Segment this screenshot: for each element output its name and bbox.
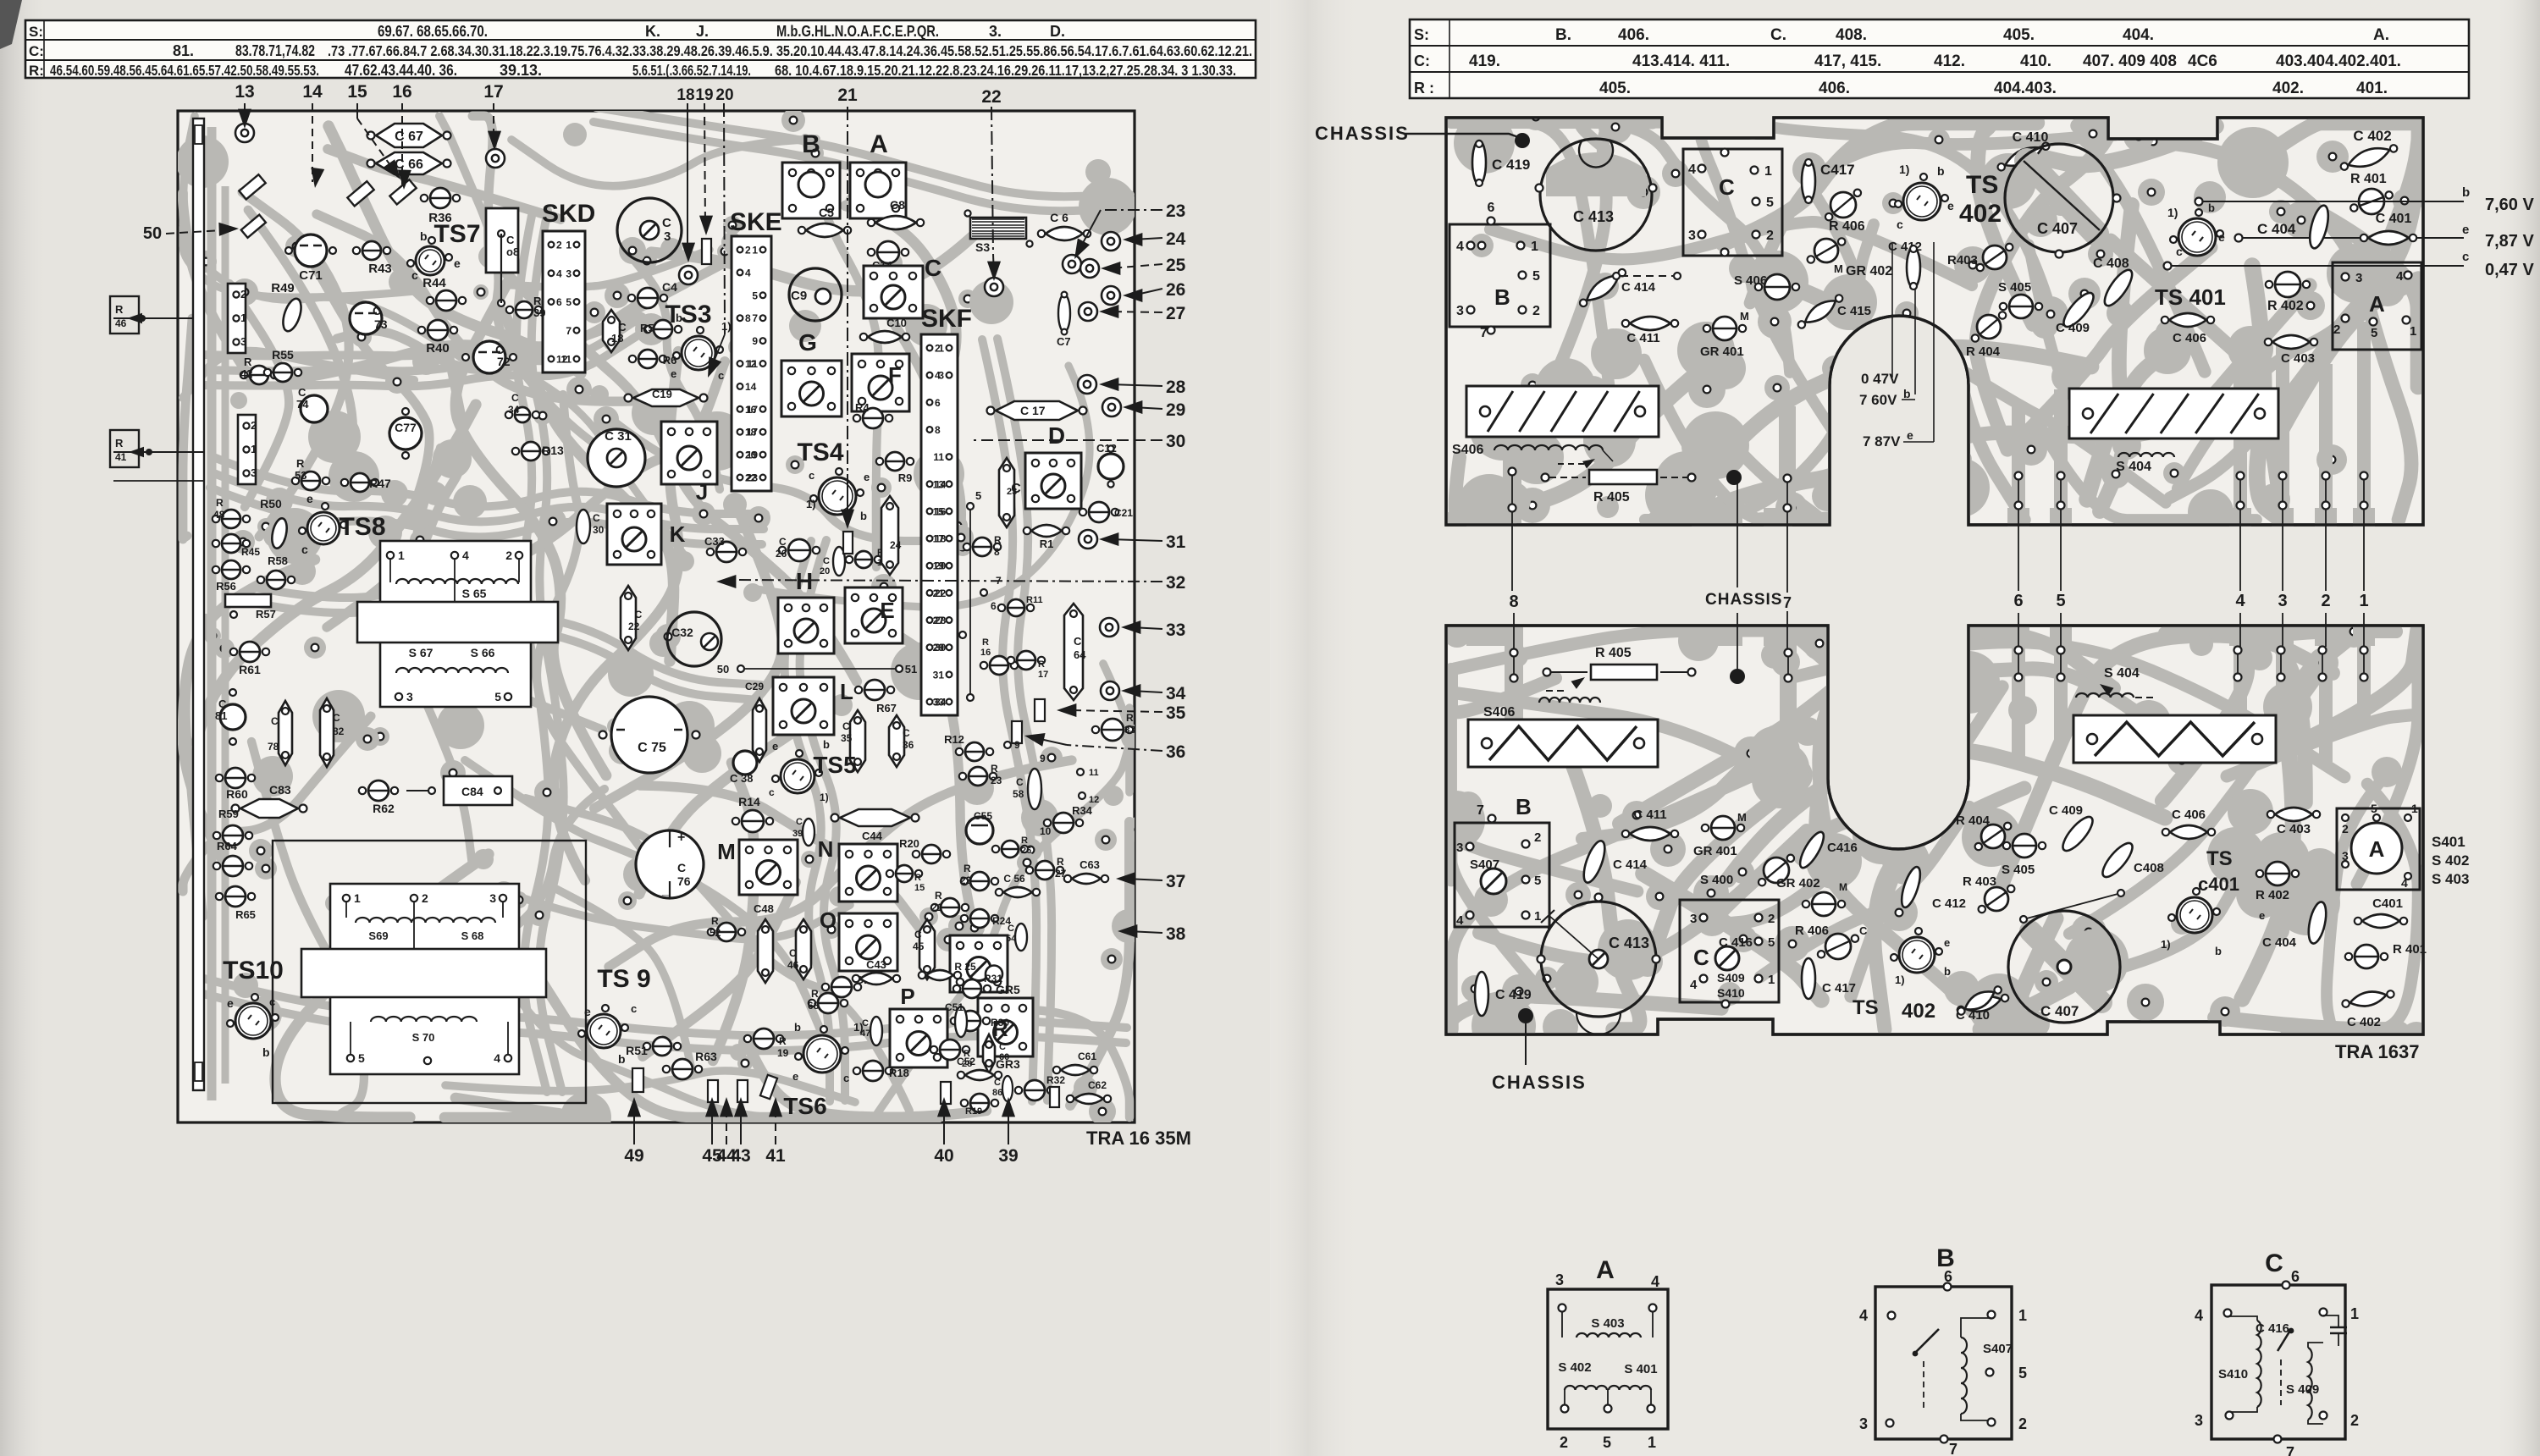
svg-text:A: A [2369, 836, 2385, 862]
svg-text:C:: C: [1414, 52, 1430, 69]
capacitor C407L [2030, 931, 2101, 1002]
resistor R64 [223, 856, 243, 876]
svg-text:2: 2 [251, 419, 257, 432]
svg-text:5: 5 [1534, 874, 1541, 888]
resistor R8 [973, 538, 991, 556]
capacitor C22 [621, 586, 636, 650]
svg-text:R 401: R 401 [2393, 942, 2427, 957]
resistor R29 [970, 1094, 989, 1112]
svg-text:18: 18 [611, 332, 623, 345]
capacitor C46 [796, 919, 811, 979]
wire [1956, 350, 2024, 520]
svg-text:b: b [676, 312, 682, 324]
svg-text:C.: C. [1770, 26, 1786, 44]
svg-text:e: e [2218, 230, 2225, 244]
svg-text:C44: C44 [862, 830, 883, 842]
svg-text:C7: C7 [1057, 335, 1071, 348]
svg-text:N: N [818, 836, 834, 862]
wire [800, 540, 845, 1100]
svg-text:S401: S401 [2432, 834, 2465, 850]
lower board pad pair 2743 [2319, 647, 2327, 654]
svg-text:R5: R5 [640, 322, 654, 334]
svg-text:c: c [2176, 245, 2183, 258]
svg-text:.73 .77.67.66.84.7 2.68.34.30.: .73 .77.67.66.84.7 2.68.34.30.31.18.22.3… [328, 42, 1252, 59]
capacitor C78 [279, 701, 292, 765]
wire [1750, 135, 2116, 303]
wire [500, 250, 710, 288]
switch symbol [1915, 1329, 1939, 1353]
svg-text:S407: S407 [1983, 1342, 2013, 1356]
capacitor C47 [870, 1017, 882, 1045]
svg-text:b: b [420, 229, 428, 243]
svg-text:22: 22 [628, 620, 640, 632]
capacitor C14 [877, 241, 899, 263]
svg-text:C 406: C 406 [2173, 331, 2206, 345]
resistor R406L [1825, 934, 1851, 959]
svg-text:81: 81 [215, 709, 227, 722]
svg-text:R67: R67 [876, 702, 897, 714]
coil S3 [970, 218, 1026, 239]
IF box N [839, 844, 897, 902]
svg-text:2: 2 [1766, 229, 1774, 243]
capacitor C6 [1038, 227, 1091, 240]
svg-text:C 409: C 409 [2049, 803, 2083, 818]
pads 11 12 [1077, 769, 1084, 775]
svg-text:R 406: R 406 [1795, 924, 1829, 938]
svg-text:1: 1 [1764, 164, 1772, 179]
svg-text:31: 31 [1166, 532, 1186, 552]
resistor R404 [1977, 315, 2001, 339]
capacitor C402 [2338, 141, 2399, 175]
svg-text:B: B [1516, 794, 1532, 819]
svg-text:b: b [2215, 945, 2222, 957]
wire [551, 886, 691, 1067]
capacitor C55 [966, 817, 993, 844]
resistor R403 [1983, 245, 2007, 269]
capacitor C60 [983, 1034, 995, 1073]
svg-text:22: 22 [960, 874, 972, 886]
svg-text:2: 2 [2350, 1412, 2359, 1429]
resistor R45 [222, 534, 240, 553]
svg-text:3: 3 [1859, 1415, 1868, 1432]
svg-text:O: O [820, 907, 837, 933]
svg-text:R: R [115, 303, 124, 316]
svg-text:c: c [269, 995, 275, 1008]
wire [1571, 759, 1640, 1029]
IF box K [607, 504, 661, 565]
svg-text:1: 1 [752, 245, 758, 256]
wire [1643, 874, 1821, 1000]
svg-text:30: 30 [593, 524, 605, 536]
transistor TS4 [819, 477, 856, 515]
wire [876, 744, 1129, 1115]
capacitor C72 [473, 341, 505, 373]
svg-text:5: 5 [975, 489, 981, 502]
capacitor C77 [389, 417, 422, 449]
svg-text:69.67. 68.65.66.70.: 69.67. 68.65.66.70. [378, 23, 488, 40]
svg-text:b: b [1937, 164, 1945, 178]
svg-text:J: J [696, 479, 708, 505]
svg-text:TS10: TS10 [223, 957, 284, 984]
IF box F [852, 354, 909, 411]
wire [1655, 781, 1799, 947]
wire [1552, 123, 1653, 383]
svg-text:C21: C21 [1114, 507, 1133, 519]
svg-text:e: e [2462, 223, 2469, 237]
wire [532, 211, 564, 1092]
svg-text:C 38: C 38 [730, 772, 753, 785]
svg-text:C 410: C 410 [2013, 130, 2049, 145]
svg-text:TS: TS [1853, 996, 1879, 1019]
svg-text:4: 4 [1456, 913, 1464, 928]
capacitor C43 [853, 973, 900, 984]
outline restroke [1446, 118, 2423, 525]
svg-text:R57: R57 [256, 608, 276, 620]
svg-text:GR 401: GR 401 [1693, 844, 1737, 858]
pad 5 col [967, 503, 974, 510]
svg-text:19: 19 [747, 449, 759, 461]
resistor R60 [225, 768, 246, 788]
voltage line c [2167, 265, 2464, 267]
wire [1705, 773, 1945, 926]
PCB board TRA 1637 upper outline [1446, 118, 2423, 525]
svg-text:C 75: C 75 [638, 741, 666, 755]
bottom pad pairs right [2015, 472, 2023, 480]
svg-text:402.: 402. [2272, 80, 2304, 97]
wire [640, 786, 926, 937]
svg-text:C: C [999, 1042, 1006, 1052]
svg-text:S406: S406 [1483, 705, 1515, 720]
svg-text:402: 402 [1959, 200, 2002, 228]
IF box E [845, 587, 903, 643]
svg-text:C83: C83 [269, 783, 291, 797]
wire [275, 854, 489, 1117]
wire [204, 332, 643, 386]
left margin connector R46 [110, 296, 139, 334]
svg-text:R56: R56 [216, 580, 236, 593]
wire [1973, 669, 2177, 745]
svg-text:R 404: R 404 [1956, 813, 1991, 828]
capacitor C64 [1064, 604, 1083, 700]
wire [1875, 788, 2024, 1029]
wire [491, 259, 857, 681]
svg-text:e: e [792, 1070, 798, 1083]
svg-text:C: C [511, 392, 519, 404]
svg-text:C: C [333, 712, 340, 724]
connector lugs bottom [632, 1068, 643, 1092]
resistor R12 [965, 742, 984, 761]
svg-text:1: 1 [1768, 973, 1775, 987]
wire [846, 206, 956, 405]
svg-text:1: 1 [2411, 802, 2418, 815]
svg-text:1: 1 [2018, 1307, 2027, 1324]
svg-text:F: F [888, 362, 902, 388]
capacitor C33 [716, 542, 737, 562]
svg-text:47.62.43.44.40. 36.: 47.62.43.44.40. 36. [345, 62, 457, 79]
wire [210, 488, 762, 544]
capacitor C45 [919, 919, 935, 979]
resistor R36 [430, 188, 450, 208]
svg-text:2: 2 [556, 240, 562, 251]
svg-text:39: 39 [533, 306, 545, 319]
resistor R9 [886, 452, 904, 471]
svg-text:18: 18 [676, 86, 694, 104]
svg-text:5: 5 [2056, 592, 2065, 610]
svg-text:6: 6 [1488, 201, 1495, 215]
pad 9 label [1004, 742, 1011, 748]
pad 22 target [985, 278, 1003, 296]
svg-text:C: C [1008, 924, 1014, 934]
wire [2027, 126, 2216, 165]
svg-text:C 17: C 17 [1020, 404, 1046, 417]
svg-text:R: R [914, 873, 921, 883]
capacitor C409L [2058, 813, 2097, 855]
svg-text:5: 5 [2371, 802, 2377, 815]
resistor R57 [225, 594, 271, 607]
svg-text:78: 78 [268, 741, 279, 753]
IF box G [781, 361, 842, 416]
svg-text:50: 50 [717, 663, 729, 676]
svg-text:76: 76 [677, 874, 691, 888]
svg-text:S406: S406 [1452, 443, 1483, 457]
svg-text:17: 17 [483, 82, 503, 102]
svg-text:33: 33 [933, 697, 945, 709]
svg-text:b: b [2462, 185, 2470, 200]
svg-text:24: 24 [890, 539, 902, 551]
wire [213, 457, 765, 514]
resistor R18 [863, 1061, 883, 1081]
svg-text:R50: R50 [260, 497, 282, 510]
wire [202, 301, 641, 356]
wire [2069, 672, 2321, 934]
svg-text:16: 16 [392, 82, 411, 102]
capacitor C8 (box) [486, 208, 518, 273]
svg-text:26: 26 [1166, 280, 1185, 300]
svg-text:27: 27 [933, 615, 945, 626]
svg-text:14: 14 [745, 381, 757, 393]
svg-text:5: 5 [358, 1051, 365, 1065]
svg-text:68. 10.4.67.18.9.15.20.21.12.: 68. 10.4.67.18.9.15.20.21.12.22.8.23.24.… [775, 62, 1236, 79]
wire [2327, 778, 2383, 1029]
svg-text:3: 3 [1690, 912, 1697, 926]
svg-text:1: 1 [2410, 324, 2416, 339]
svg-text:8: 8 [994, 546, 1000, 558]
diode GR4 [831, 977, 852, 997]
wire [411, 668, 472, 866]
svg-text:402: 402 [1902, 1000, 1935, 1023]
svg-text:R 403: R 403 [1963, 874, 1996, 889]
svg-text:22: 22 [981, 87, 1001, 107]
svg-text:1): 1) [806, 498, 816, 510]
pad 33 [1100, 618, 1118, 637]
copper traces right lower board [1451, 631, 2418, 1029]
voltage line b [2199, 201, 2464, 202]
svg-text:3: 3 [664, 229, 671, 244]
svg-text:46.54.60.59.48.56.45.64.61.65.: 46.54.60.59.48.56.45.64.61.65.57.42.50.5… [50, 62, 319, 79]
svg-text:3.: 3. [989, 23, 1002, 40]
wire [594, 122, 1128, 211]
svg-text:5: 5 [494, 690, 501, 703]
svg-text:1: 1 [398, 549, 405, 562]
svg-text:0 47V: 0 47V [1861, 371, 1899, 387]
svg-text:R14: R14 [738, 795, 760, 808]
svg-text:7 87V: 7 87V [1863, 433, 1901, 449]
svg-text:C 412: C 412 [1932, 896, 1966, 911]
svg-text:C 6: C 6 [1050, 211, 1068, 224]
wire [465, 760, 828, 1048]
svg-text:R403: R403 [1947, 253, 1978, 267]
svg-text:C 408: C 408 [2093, 256, 2129, 271]
wire [328, 149, 560, 219]
resistor R43 [362, 241, 381, 260]
svg-text:4: 4 [1456, 240, 1464, 254]
coil S405 [2009, 295, 2033, 318]
svg-text:C 417: C 417 [1822, 981, 1856, 995]
svg-text:C62: C62 [1088, 1079, 1107, 1091]
wire [1753, 278, 1963, 459]
solder lug 15 [389, 179, 416, 204]
svg-text:R: R [779, 1035, 787, 1047]
wire [1654, 347, 2091, 520]
wire [2242, 123, 2418, 173]
lower board pad pair 2434 [2057, 647, 2065, 654]
svg-text:S410: S410 [1717, 986, 1745, 1000]
svg-text:R 406: R 406 [1829, 219, 1865, 234]
svg-text:R9: R9 [898, 472, 913, 484]
svg-text:19: 19 [695, 86, 713, 104]
wire [183, 193, 253, 382]
capacitor C66 [376, 152, 442, 174]
svg-text:R31: R31 [984, 973, 1002, 984]
svg-text:45: 45 [913, 940, 925, 952]
svg-text:E: E [880, 598, 894, 623]
svg-text:4: 4 [2401, 876, 2408, 890]
svg-text:R60: R60 [226, 787, 248, 801]
capacitor C417L [1802, 958, 1815, 999]
svg-text:GR 401: GR 401 [1700, 345, 1744, 359]
wire [2087, 343, 2175, 499]
svg-text:1: 1 [354, 891, 361, 905]
capacitor C4 [638, 288, 658, 308]
svg-text:410.: 410. [2020, 52, 2051, 70]
diode GR402 [1814, 239, 1838, 262]
svg-text:C: C [789, 947, 797, 959]
svg-text:S410: S410 [2218, 1367, 2248, 1382]
svg-text:S3: S3 [975, 240, 990, 254]
svg-text:S 66: S 66 [471, 646, 495, 659]
wire [301, 242, 429, 517]
coil S405u [1764, 274, 1790, 300]
svg-text:1): 1) [1899, 163, 1909, 176]
wire [327, 355, 463, 627]
svg-text:C 407: C 407 [2037, 220, 2078, 237]
svg-text:74: 74 [296, 398, 309, 411]
wire [594, 510, 782, 808]
wire [610, 418, 958, 541]
capacitor C54 [1015, 924, 1027, 951]
svg-text:C 414: C 414 [1613, 858, 1648, 872]
svg-text:8: 8 [745, 312, 751, 324]
svg-text:5: 5 [1766, 196, 1774, 210]
svg-text:R47: R47 [369, 477, 391, 490]
svg-text:53: 53 [295, 469, 306, 482]
svg-text:b: b [2208, 201, 2215, 214]
svg-text:47: 47 [860, 1029, 870, 1039]
resistor R25 [919, 970, 961, 980]
svg-text:R61: R61 [239, 663, 261, 676]
svg-text:6: 6 [935, 397, 941, 409]
capacitor C74 [301, 395, 328, 422]
svg-text:31: 31 [933, 669, 945, 681]
wire [2077, 123, 2205, 372]
resistor R67 [864, 680, 885, 700]
svg-text:R49: R49 [271, 281, 295, 295]
resistor R62 [368, 780, 389, 801]
capacitor C410L2 [1955, 982, 2005, 1018]
svg-text:C: C [1016, 776, 1024, 788]
svg-text:2: 2 [1532, 304, 1540, 318]
svg-text:S 401: S 401 [1624, 1362, 1657, 1376]
svg-text:7: 7 [566, 325, 571, 337]
wire [255, 587, 761, 685]
wire [982, 339, 1036, 1101]
svg-text:19: 19 [777, 1047, 789, 1059]
wire [537, 394, 641, 848]
svg-text:C8: C8 [890, 198, 905, 212]
wire [526, 798, 909, 1111]
svg-text:R: R [296, 457, 305, 470]
svg-text:2: 2 [240, 288, 246, 301]
transistor TS401L [2177, 897, 2212, 933]
wire [1915, 285, 2310, 474]
capacitor C29 [753, 698, 766, 762]
pads 23-27 [1063, 255, 1081, 273]
svg-text:50: 50 [143, 224, 162, 243]
svg-text:4: 4 [2235, 592, 2245, 610]
transistor TS8 [307, 512, 340, 544]
capacitor C86 [1002, 1076, 1013, 1101]
svg-text:C: C [218, 698, 227, 710]
svg-text:28: 28 [1166, 378, 1186, 397]
wire [1535, 123, 1790, 372]
svg-text:1: 1 [1648, 1434, 1656, 1451]
wire [439, 116, 612, 455]
svg-text:C: C [677, 861, 686, 874]
wire [248, 210, 353, 482]
svg-text:405.: 405. [1599, 80, 1631, 97]
svg-text:S 405: S 405 [1998, 280, 2031, 295]
wire [2242, 631, 2358, 999]
svg-text:1): 1) [820, 791, 829, 803]
svg-text:c: c [631, 1002, 637, 1015]
svg-text:R64: R64 [217, 840, 238, 852]
IF box R [978, 998, 1033, 1056]
svg-text:46: 46 [115, 317, 127, 329]
coil S406 (hatched box) [1466, 386, 1659, 437]
svg-text:R59: R59 [218, 808, 239, 820]
svg-text:7: 7 [2286, 1444, 2294, 1456]
svg-text:54: 54 [1006, 934, 1017, 944]
pad 17 [486, 149, 505, 168]
svg-text:27: 27 [1166, 304, 1185, 323]
wire [1801, 639, 1916, 743]
svg-text:R: R [964, 863, 971, 874]
solder lug 50 [241, 215, 266, 238]
svg-text:1): 1) [2167, 206, 2178, 219]
wire [2281, 631, 2418, 752]
svg-text:H: H [796, 568, 813, 594]
svg-text:R51: R51 [626, 1044, 648, 1057]
